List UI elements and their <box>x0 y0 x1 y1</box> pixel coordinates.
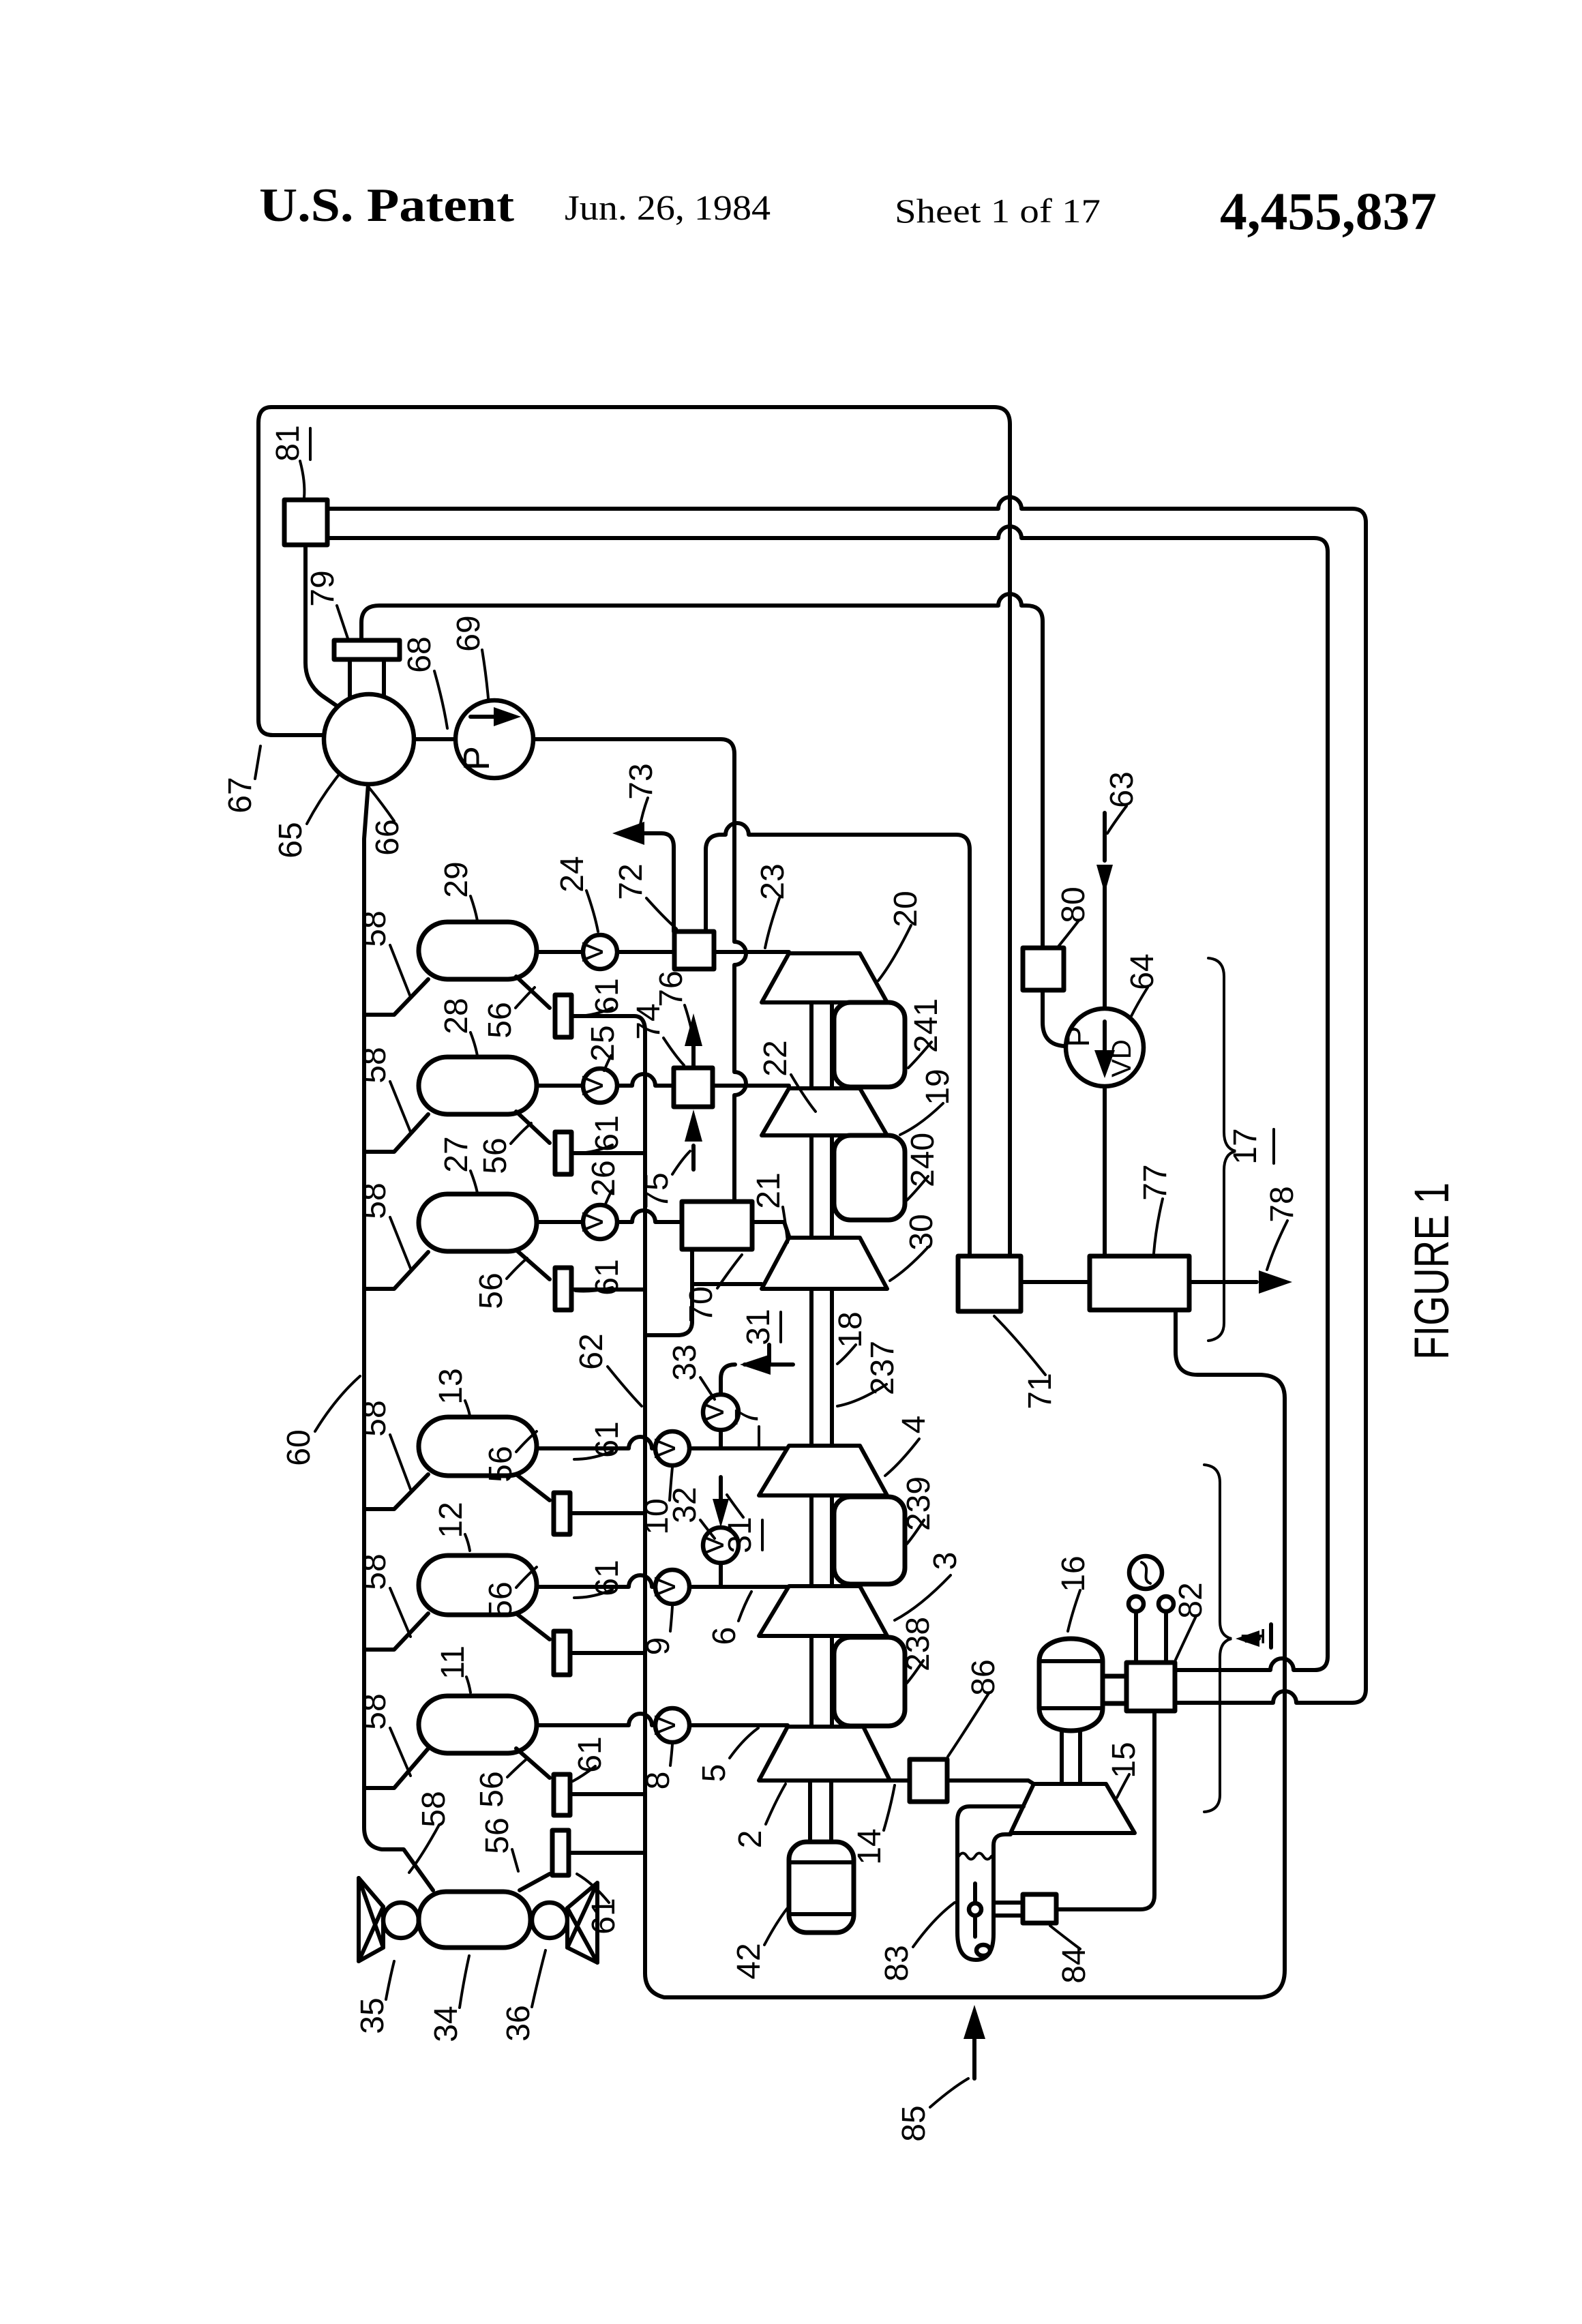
label 31a <box>741 1309 781 1345</box>
label 237 <box>837 1341 901 1406</box>
label 9 <box>640 1607 676 1655</box>
label 72 <box>613 863 676 929</box>
svg-text:33: 33 <box>667 1344 703 1380</box>
label 56d <box>483 1431 537 1483</box>
svg-text:61: 61 <box>586 1898 622 1934</box>
label 1 <box>1236 1628 1272 1646</box>
svg-text:V: V <box>648 1715 682 1735</box>
svg-text:74: 74 <box>631 1003 667 1039</box>
svg-text:9: 9 <box>640 1637 676 1656</box>
label 58c <box>357 1182 411 1268</box>
svg-text:25: 25 <box>585 1025 621 1061</box>
svg-text:16: 16 <box>1056 1555 1092 1592</box>
label 18 <box>833 1311 869 1364</box>
label 4 <box>885 1416 932 1476</box>
turbine 4 <box>759 1446 887 1495</box>
node 70 box <box>682 1202 752 1249</box>
svg-text:V: V <box>576 1075 610 1096</box>
svg-text:27: 27 <box>438 1136 475 1172</box>
label 81 <box>270 425 310 498</box>
svg-text:56: 56 <box>474 1771 510 1807</box>
svg-text:P: P <box>456 746 497 771</box>
label 58 <box>357 910 411 997</box>
label 19 <box>900 1069 956 1135</box>
svg-text:58: 58 <box>357 910 393 947</box>
label 241 <box>908 998 944 1068</box>
svg-text:23: 23 <box>755 863 791 899</box>
label 74 <box>631 1003 684 1065</box>
label 22 <box>758 1040 816 1112</box>
label 69 <box>451 615 488 698</box>
label 21 <box>751 1172 788 1242</box>
vessel 34 <box>419 1892 531 1948</box>
svg-text:85: 85 <box>896 2105 932 2141</box>
svg-text:P: P <box>1060 1026 1096 1047</box>
svg-text:6: 6 <box>706 1627 743 1645</box>
svg-text:17: 17 <box>1227 1128 1264 1164</box>
rotor 238 <box>834 1637 905 1726</box>
svg-text:11: 11 <box>435 1645 471 1680</box>
svg-text:83: 83 <box>879 1945 915 1981</box>
brace 17 <box>1208 958 1236 1341</box>
label 82 <box>1173 1582 1209 1660</box>
svg-text:3: 3 <box>927 1552 964 1570</box>
svg-text:31: 31 <box>741 1309 777 1345</box>
header text <box>259 179 1437 241</box>
label 63 <box>1104 771 1140 833</box>
svg-text:30: 30 <box>904 1214 940 1250</box>
vessel 29 <box>419 922 537 979</box>
svg-text:32: 32 <box>667 1487 703 1523</box>
wire arrow 78 output <box>1189 1280 1257 1284</box>
wire main steam line 68 <box>273 733 325 737</box>
label 58d <box>357 1400 411 1489</box>
svg-text:29: 29 <box>438 861 475 897</box>
svg-text:238: 238 <box>900 1617 936 1671</box>
node 77 box <box>1090 1256 1189 1310</box>
label 60 <box>281 1376 360 1466</box>
label 61f <box>572 1736 608 1781</box>
label 56f <box>474 1758 528 1808</box>
svg-text:19: 19 <box>920 1069 956 1105</box>
svg-text:35: 35 <box>355 1997 391 2033</box>
terminal stems <box>1136 1611 1166 1663</box>
wire outer left boundary 67 <box>258 407 273 735</box>
label 62 <box>573 1333 642 1406</box>
AC symbol 82 <box>1129 1556 1162 1589</box>
label 73 <box>623 763 659 828</box>
label 15 <box>1106 1742 1142 1798</box>
wire drum feeders 58 <box>364 979 428 1015</box>
label 36 <box>501 1950 546 2042</box>
svg-text:56: 56 <box>483 1446 519 1482</box>
wire 80 to gauge 64 <box>1043 990 1064 1046</box>
svg-text:75: 75 <box>639 1172 675 1208</box>
svg-text:20: 20 <box>888 891 924 927</box>
label 32 <box>667 1487 715 1538</box>
svg-text:28: 28 <box>438 998 475 1034</box>
wire 23 line to box 71 (hops at 1078) <box>706 823 970 1256</box>
label 11 <box>435 1645 471 1693</box>
label 29 <box>438 861 477 921</box>
label 61e <box>574 1560 625 1598</box>
label 16 <box>1056 1555 1092 1631</box>
svg-text:12: 12 <box>433 1502 469 1538</box>
svg-text:67: 67 <box>222 777 258 813</box>
label 30 <box>890 1214 940 1281</box>
svg-text:15: 15 <box>1106 1742 1142 1778</box>
svg-text:58: 58 <box>357 1400 393 1436</box>
label 61d <box>574 1421 625 1459</box>
label 84 <box>1050 1926 1092 1984</box>
bearing circle 36 <box>532 1903 567 1938</box>
label 61b <box>576 1115 625 1153</box>
svg-text:FIGURE 1: FIGURE 1 <box>1405 1182 1459 1360</box>
wire arrow 1 pointer <box>1244 1637 1259 1641</box>
svg-text:V: V <box>648 1577 682 1597</box>
rotor 239 <box>834 1497 905 1584</box>
flange 79 on drum 65 <box>334 640 400 659</box>
vessel 13 <box>419 1417 537 1476</box>
svg-text:77: 77 <box>1137 1164 1174 1200</box>
wire outer top boundary 67 <box>271 407 1010 1256</box>
wire turbine 30 exhaust stub <box>692 1282 762 1286</box>
wire 81 box down to drum 65 <box>305 545 342 709</box>
svg-text:63: 63 <box>1104 771 1140 807</box>
label 6 <box>706 1592 751 1645</box>
gauge 64 P/VD <box>1066 1009 1144 1086</box>
node 81 control box <box>284 500 327 545</box>
brace 1 <box>1204 1465 1232 1812</box>
svg-text:V: V <box>697 1402 730 1422</box>
node 80 box <box>1023 948 1064 990</box>
label 58b <box>357 1047 411 1132</box>
wire manifold 66/60 <box>364 784 433 1890</box>
label 68 <box>402 636 447 728</box>
label 61 <box>576 978 625 1016</box>
svg-text:62: 62 <box>573 1333 610 1369</box>
svg-text:14: 14 <box>852 1828 888 1864</box>
svg-text:Sheet 1 of 17: Sheet 1 of 17 <box>895 192 1101 230</box>
svg-text:58: 58 <box>416 1791 452 1827</box>
svg-text:81: 81 <box>270 425 306 461</box>
label 61c <box>576 1259 625 1295</box>
svg-text:68: 68 <box>402 636 438 672</box>
svg-text:4: 4 <box>896 1416 932 1434</box>
svg-text:U.S. Patent: U.S. Patent <box>259 179 514 232</box>
tank 83 level line <box>959 1853 991 1860</box>
svg-text:56: 56 <box>473 1272 509 1309</box>
svg-text:42: 42 <box>731 1943 767 1979</box>
wire 79 line to box 80 (hop at 1481) <box>361 594 1043 948</box>
label 67 <box>222 746 260 814</box>
svg-text:5: 5 <box>696 1764 732 1783</box>
svg-text:78: 78 <box>1264 1186 1300 1222</box>
label 13 <box>433 1368 470 1416</box>
svg-text:13: 13 <box>433 1368 469 1404</box>
label 56 <box>482 987 535 1039</box>
generator shaft <box>1062 1730 1080 1783</box>
tank 83 float valve <box>973 1883 977 1937</box>
svg-text:26: 26 <box>586 1160 622 1196</box>
label 70 <box>683 1255 742 1323</box>
svg-text:84: 84 <box>1056 1947 1092 1983</box>
label 71 <box>994 1316 1058 1410</box>
turbine 23/20 <box>762 953 887 1002</box>
generator 16 body <box>1039 1639 1103 1731</box>
svg-text:34: 34 <box>428 2006 464 2042</box>
label 79 <box>305 570 348 638</box>
label 2 <box>732 1784 786 1848</box>
label 35 <box>355 1961 394 2034</box>
node 82 terminal box <box>1126 1663 1175 1711</box>
svg-text:71: 71 <box>1022 1373 1058 1409</box>
wire arrow 73 bleed <box>641 833 674 932</box>
svg-text:21: 21 <box>751 1172 787 1208</box>
motor 42 <box>789 1842 854 1933</box>
svg-text:56: 56 <box>482 1002 518 1038</box>
label 24 <box>554 856 598 932</box>
turbine 3 <box>759 1586 887 1636</box>
svg-text:56: 56 <box>477 1137 513 1174</box>
svg-text:60: 60 <box>281 1429 317 1465</box>
label 77 <box>1137 1164 1174 1253</box>
svg-text:241: 241 <box>908 998 944 1053</box>
label 78 <box>1264 1186 1300 1270</box>
svg-text:66: 66 <box>370 819 406 855</box>
svg-text:69: 69 <box>451 615 487 651</box>
label 3 <box>895 1552 964 1620</box>
svg-text:56: 56 <box>479 1817 516 1853</box>
label 26 <box>586 1160 622 1206</box>
wire 70 elbow to manifold 62 <box>645 1249 692 1335</box>
node 84 box <box>1023 1894 1056 1923</box>
exciter link to box 82 <box>1103 1676 1126 1703</box>
svg-text:76: 76 <box>653 970 689 1007</box>
svg-text:73: 73 <box>623 763 659 799</box>
label 65 <box>273 775 339 859</box>
wire 81 to right upper (to vertical 2003, hop at 1481) <box>327 497 1366 1703</box>
valve 32 riser with inlet arrow 31 <box>719 1477 723 1587</box>
label 85 <box>896 2079 968 2142</box>
label 25 <box>585 1025 621 1071</box>
label 64 <box>1124 953 1161 1017</box>
wire 81 to right lower (to vertical 1947, hop at 1481) <box>327 526 1328 1670</box>
wire compressor discharge 14 <box>890 1781 1034 1784</box>
drum 65 <box>324 694 414 784</box>
wire arrow 85 makeup <box>972 2020 976 2079</box>
label 5 <box>696 1728 758 1782</box>
wire arrow 75 below box 74 <box>691 1146 696 1170</box>
label 27 <box>438 1136 477 1193</box>
label 83 <box>879 1903 955 1982</box>
svg-text:58: 58 <box>357 1693 393 1729</box>
vessel 27 <box>419 1194 537 1251</box>
label 58g <box>409 1791 452 1873</box>
label 10 <box>639 1468 675 1535</box>
label 56e <box>483 1567 537 1618</box>
svg-text:31: 31 <box>722 1517 758 1553</box>
wire 63 feed with arrow <box>1103 813 1107 1256</box>
wire 71-77 link <box>1021 1280 1090 1284</box>
svg-text:36: 36 <box>501 2005 537 2041</box>
label 238 <box>900 1617 936 1683</box>
label 56b <box>477 1123 531 1174</box>
svg-text:V: V <box>576 942 610 962</box>
svg-text:22: 22 <box>758 1040 794 1076</box>
svg-text:56: 56 <box>483 1581 519 1618</box>
label 80 <box>1056 887 1092 947</box>
label 66 <box>370 788 406 856</box>
vessel 28 <box>419 1057 537 1114</box>
label 12 <box>433 1502 470 1551</box>
label 240 <box>905 1133 941 1200</box>
label 239 <box>901 1476 937 1544</box>
label 14 <box>852 1785 895 1865</box>
shaft segments <box>810 1002 832 1842</box>
label 34 <box>428 1956 469 2042</box>
svg-text:7: 7 <box>729 1408 765 1427</box>
label 31b <box>722 1495 762 1553</box>
svg-text:82: 82 <box>1173 1582 1209 1618</box>
svg-text:72: 72 <box>613 863 649 899</box>
gauge 69 pressure <box>456 700 533 778</box>
label 58f <box>357 1693 411 1776</box>
label 75 <box>639 1151 690 1209</box>
rotor 240 <box>834 1135 905 1220</box>
label 28 <box>438 998 477 1056</box>
svg-text:239: 239 <box>901 1476 937 1531</box>
bearing circle 35 <box>383 1903 419 1938</box>
svg-text:240: 240 <box>905 1133 941 1187</box>
svg-text:18: 18 <box>833 1311 869 1347</box>
node 71 box <box>958 1256 1021 1311</box>
svg-text:8: 8 <box>640 1772 676 1790</box>
rotor 241 <box>834 1002 905 1087</box>
svg-text:V: V <box>576 1212 610 1232</box>
label 42 <box>731 1905 790 1980</box>
wire 84 to 82 riser <box>1056 1711 1154 1909</box>
label 23 <box>755 863 791 948</box>
svg-text:58: 58 <box>357 1553 393 1590</box>
svg-text:70: 70 <box>683 1286 719 1322</box>
funnel 35 <box>359 1878 383 1961</box>
label 7 <box>729 1408 765 1446</box>
label 33 <box>667 1344 715 1399</box>
turbine 15 <box>1011 1784 1135 1833</box>
svg-text:61: 61 <box>572 1736 608 1772</box>
label 58e <box>357 1553 411 1637</box>
label 61g <box>577 1874 622 1935</box>
compressor 5/2 <box>759 1727 890 1781</box>
svg-text:V: V <box>648 1438 682 1459</box>
label 76 <box>653 970 691 1030</box>
label 20 <box>878 891 924 981</box>
vessel 11 <box>419 1696 537 1753</box>
svg-text:4,455,837: 4,455,837 <box>1220 181 1437 241</box>
svg-text:64: 64 <box>1124 953 1161 989</box>
label 8 <box>640 1744 676 1789</box>
turbine 22/19 <box>762 1088 887 1135</box>
svg-text:2: 2 <box>732 1830 768 1849</box>
node 72 valve box <box>674 932 714 969</box>
node 86 box <box>910 1759 947 1802</box>
valve 33/7 riser with arrow 31 <box>721 1345 793 1448</box>
svg-text:80: 80 <box>1056 887 1092 923</box>
wire 56 diagonal and filter 61 to manifold 62 head <box>516 977 1285 1997</box>
svg-text:58: 58 <box>357 1047 393 1083</box>
svg-text:VD: VD <box>1107 1039 1137 1077</box>
svg-text:Jun. 26, 1984: Jun. 26, 1984 <box>565 189 771 228</box>
label 56g <box>479 1817 518 1871</box>
label 17 <box>1227 1128 1274 1164</box>
label 86 <box>948 1659 1002 1757</box>
label 56c <box>473 1258 527 1309</box>
wire turbine 15 exhaust elbow into tank <box>957 1806 1024 1960</box>
svg-text:65: 65 <box>273 822 309 858</box>
wire arrow 76 above box 74 <box>691 1043 696 1068</box>
svg-text:1: 1 <box>1236 1628 1272 1646</box>
turbine 21/30 <box>762 1238 887 1289</box>
funnel 36 <box>567 1883 597 1963</box>
svg-text:24: 24 <box>554 856 591 892</box>
svg-text:58: 58 <box>357 1182 393 1219</box>
svg-text:79: 79 <box>305 570 341 606</box>
vessel 12 <box>419 1555 537 1615</box>
svg-text:86: 86 <box>966 1659 1002 1695</box>
